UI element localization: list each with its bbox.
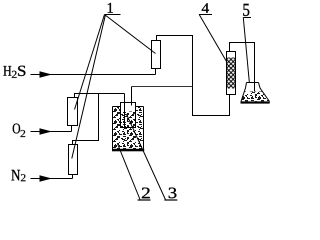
wire H2S inlet line (31, 69, 156, 75)
label 3 (169, 188, 177, 199)
flowmeter FM3 (N2) (69, 145, 78, 175)
wash bottle walls (113, 107, 144, 151)
label O2 (13, 123, 20, 133)
wire O2 inlet line (31, 126, 72, 132)
flask base (241, 101, 270, 103)
pointer 1 to FM3 (72, 15, 106, 159)
wire FM2 outlet mix line (75, 94, 125, 98)
label N2 (11, 170, 20, 181)
wire N2 inlet line (31, 175, 73, 179)
arrowhead O2 (40, 128, 53, 135)
column packing hatch (227, 58, 235, 89)
pointer 4 to column (199, 15, 227, 63)
pointer 2 to liquid (118, 144, 140, 200)
label 1 (108, 3, 113, 13)
pipe short (outlet) (131, 87, 133, 106)
label 5 (243, 4, 249, 16)
flask F5 liquid (241, 92, 269, 102)
pointer 1 to FM2 (75, 15, 105, 110)
flowmeter FM1 (H2S) (152, 41, 161, 69)
pointer 1 to FM1 (105, 15, 156, 54)
wire column outlet to flask (230, 43, 255, 95)
wash bottle B2 liquid (113, 107, 144, 149)
flowmeter FM2 (O2) (68, 98, 78, 126)
wash bottle bottom (112, 149, 144, 152)
pointer 5 to flask (243, 18, 249, 83)
arrowhead H2S (40, 71, 53, 78)
wire bottle outlet branch to tee (132, 86, 193, 88)
pointer 3 to tube liquid (126, 114, 165, 200)
arrowhead N2 (40, 175, 53, 182)
underline 1 (105, 14, 121, 16)
pipe into tube (O2+N2) (124, 94, 126, 128)
reactor column U4 (227, 52, 236, 95)
label H2S (3, 66, 11, 76)
underline 2 (138, 199, 151, 201)
wash bottle inner tube (121, 103, 136, 128)
flask F5 outline (241, 83, 270, 102)
wash bottle inner tube interior (121, 103, 136, 128)
label 4 (202, 3, 209, 13)
wire FM3 outlet riser (73, 94, 99, 145)
wire FM1 outlet to junction (157, 36, 230, 116)
underline 4 (199, 14, 212, 16)
underline 5 (243, 17, 251, 19)
label 2 (142, 188, 150, 199)
underline 3 (164, 199, 177, 201)
